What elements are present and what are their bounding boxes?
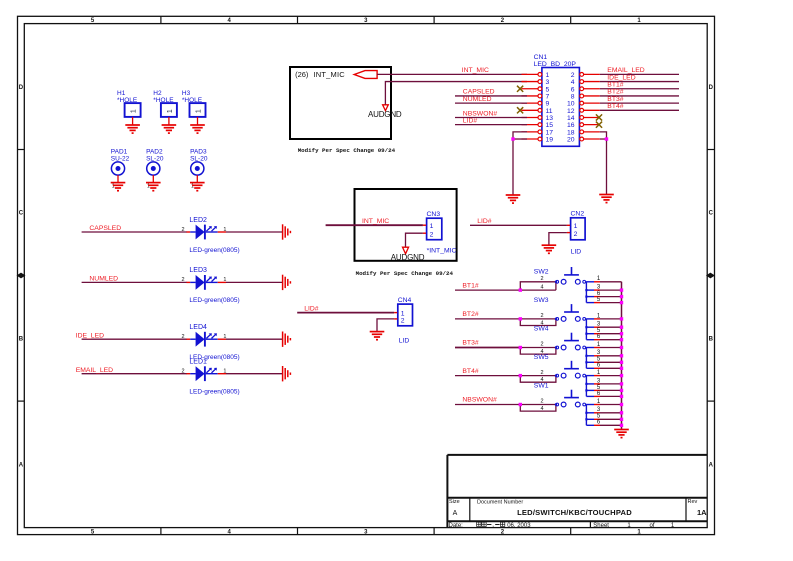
svg-text:C: C (709, 211, 714, 217)
svg-text:1: 1 (147, 184, 150, 190)
svg-text:1: 1 (574, 223, 578, 230)
svg-text:*HOLE: *HOLE (182, 97, 203, 104)
svg-text:BT1#: BT1# (462, 282, 478, 289)
svg-text:IDE_LED: IDE_LED (607, 74, 635, 81)
label LED-green(0805) (LED3) (189, 297, 239, 304)
label SW4 (534, 326, 549, 333)
label BT3# (CN1) (607, 96, 623, 103)
wires SW2 to ground bus (600, 282, 622, 303)
svg-text:INT_MIC: INT_MIC (462, 67, 489, 74)
CN1 right pins 2-20 (stubs+circles) (580, 73, 600, 141)
wire IDE_LED from CN1 pin 4 (600, 81, 679, 83)
svg-text:NUMLED: NUMLED (463, 96, 492, 103)
label LED3 (189, 267, 207, 274)
label BT4# (CN1) (607, 103, 623, 110)
svg-text:2: 2 (181, 277, 184, 283)
label NUMLED (CN1) (463, 96, 492, 103)
svg-text:AUDGND: AUDGND (368, 110, 402, 119)
label AUDGND (CN3) (391, 253, 425, 262)
note box CN3 (355, 189, 457, 261)
connector CN1 LED_BD_20P (534, 54, 580, 146)
svg-text:1: 1 (112, 184, 115, 190)
pad PAD3 (190, 148, 208, 175)
svg-text:Modify Per Spec Change 09/24: Modify Per Spec Change 09/24 (356, 270, 454, 277)
CN1 pin numbers (546, 72, 575, 144)
svg-text:NBSWON#: NBSWON# (462, 397, 497, 404)
svg-text:EMAIL_LED: EMAIL_LED (607, 67, 644, 74)
svg-text:NBSWON#: NBSWON# (463, 110, 498, 117)
label *INT_MIC (427, 248, 457, 255)
label SW2 (534, 268, 549, 275)
SW1 pin numbers 2/4 (540, 399, 543, 412)
label AUDGND (top) (368, 110, 402, 119)
wire LED3 to termination (226, 281, 283, 283)
ground PAD3 (190, 183, 205, 191)
termination (rotated ground) NUMLED (283, 275, 291, 290)
LED1 pin numbers (181, 369, 226, 375)
label SW3 (534, 297, 549, 304)
SW5 right pin numbers (597, 370, 601, 397)
note Modify Per Spec Change 09/24 (top) (298, 147, 396, 154)
svg-text:SW1: SW1 (534, 383, 549, 390)
label LED-green(0805) (LED2) (189, 247, 239, 254)
switch SW2 right pins (585, 282, 600, 303)
wire CAPSLED to CN1 pin 7 (455, 95, 527, 97)
svg-text:A: A (709, 462, 714, 468)
svg-text:2: 2 (540, 313, 543, 319)
wires SW1 to ground bus (600, 405, 622, 426)
svg-text:C: C (19, 211, 24, 217)
svg-text:9: 9 (546, 101, 550, 108)
switch SW5 actuator (564, 361, 579, 369)
switch SW5 right pins (585, 376, 600, 397)
ground CN2 (542, 245, 557, 253)
wire BT3# from CN1 pin 10 (600, 102, 679, 104)
label INT_MIC (CN3) (362, 218, 389, 225)
svg-text:D: D (19, 85, 24, 91)
label CN2 (571, 210, 585, 217)
label NUMLED (89, 276, 118, 283)
ground (bus) (614, 430, 629, 438)
junction CN1-left gnd (511, 137, 514, 140)
ground H2 (162, 125, 177, 133)
svg-text:2: 2 (430, 231, 434, 238)
svg-text:A: A (453, 510, 458, 517)
wire LED1 to termination (226, 373, 283, 375)
note Modify Per Spec Change 09/24 (CN3) (356, 270, 454, 277)
termination (rotated ground) EMAIL_LED (283, 366, 291, 381)
wire INT_MIC to CN1 pin 1 (377, 73, 527, 75)
svg-text:D: D (709, 85, 714, 91)
wire INT_MIC to CN3 pin 1 (326, 224, 423, 226)
wire EMAIL_LED to LED1 (82, 373, 187, 375)
svg-text:16: 16 (567, 122, 575, 129)
SW4 right pin numbers (597, 342, 601, 369)
svg-text:12: 12 (567, 108, 575, 115)
label LID# (CN4) (304, 305, 319, 312)
svg-text:2: 2 (401, 318, 405, 325)
wire ground bus (621, 282, 623, 430)
svg-text:1: 1 (131, 109, 138, 113)
svg-text:2: 2 (571, 72, 575, 79)
svg-text:LID: LID (571, 249, 582, 256)
no-connect X CN1 pin 11 (517, 107, 523, 113)
label BT3# (SW4) (462, 340, 478, 347)
wire CN1 pins 17/19 to ground (513, 132, 527, 195)
label LID (CN2) (571, 249, 582, 256)
label NBSWON# (CN1) (463, 110, 498, 117)
svg-text:13: 13 (546, 115, 554, 122)
SW3 right pin numbers (597, 313, 601, 340)
svg-text:Date:: Date: (449, 523, 464, 529)
svg-text:*HOLE: *HOLE (117, 97, 138, 104)
wire SW4 pins 2/4 link (520, 348, 556, 355)
wire CN4 pin 2 to ground (377, 319, 394, 332)
wire SW3 pins 2/4 link (520, 319, 556, 326)
junction CN1-right gnd (605, 137, 608, 140)
svg-text:2: 2 (574, 231, 578, 238)
label LED-green(0805) (LED4) (189, 354, 239, 361)
LED LED4 (187, 332, 227, 347)
svg-text:14: 14 (567, 115, 575, 122)
wire BT3# to SW4 (455, 347, 520, 349)
svg-text:SL-20: SL-20 (190, 155, 208, 162)
label CN4 (398, 297, 412, 304)
svg-text:BT2#: BT2# (607, 89, 623, 96)
svg-text:2: 2 (181, 334, 184, 340)
svg-text:*HOLE: *HOLE (153, 97, 174, 104)
wire SW2 pins 2/4 link (520, 282, 556, 290)
svg-text:LED_BD_20P: LED_BD_20P (534, 61, 577, 68)
ground CN1 right (599, 195, 614, 203)
label INT_MIC (net) (462, 67, 489, 74)
label LID (CN4) (399, 338, 410, 345)
switch SW1 contacts (555, 402, 586, 407)
SW2 right pin numbers (597, 276, 601, 303)
junction BT4#/SW5 (519, 374, 522, 377)
svg-text:CN4: CN4 (398, 297, 412, 304)
hole H2 (153, 90, 177, 117)
svg-text:19: 19 (546, 137, 554, 144)
junction NBSWON#/SW1 (519, 403, 522, 406)
svg-text:4: 4 (540, 406, 543, 412)
ground H3 (190, 125, 205, 133)
svg-text:LED-green(0805): LED-green(0805) (189, 389, 239, 396)
LED LED1 (187, 366, 227, 381)
svg-text:1: 1 (546, 72, 550, 79)
svg-text:SW5: SW5 (534, 354, 549, 361)
wire PAD1 to ground (117, 175, 119, 183)
port arrow AUDGND (CN3) (403, 247, 409, 254)
svg-text:(26): (26) (295, 70, 309, 79)
wire PAD2 to ground (152, 175, 154, 183)
svg-text:EMAIL_LED: EMAIL_LED (76, 367, 113, 374)
svg-text:1: 1 (167, 109, 174, 113)
PAD2 pin number 1 (147, 184, 150, 190)
svg-text:CN2: CN2 (571, 210, 585, 217)
svg-text:LID: LID (399, 338, 410, 345)
svg-text:2: 2 (181, 227, 184, 233)
pad PAD2 (146, 148, 164, 175)
junction BT2#/SW3 (519, 317, 522, 320)
switch SW3 contacts (555, 317, 586, 322)
label CAPSLED (89, 225, 121, 232)
label LED1 (189, 359, 207, 366)
LED LED3 (187, 275, 227, 290)
wire SW1 pins 2/4 link (520, 405, 556, 412)
wires SW5 to ground bus (600, 376, 622, 397)
svg-text:of: of (649, 523, 654, 529)
wire BT1# to SW2 (455, 289, 520, 291)
wire EMAIL_LED from CN1 pin 2 (600, 73, 679, 75)
label LID# (CN1) (463, 117, 478, 124)
termination (rotated ground) CAPSLED (283, 224, 291, 239)
svg-text:B: B (709, 337, 714, 343)
hole H1 (117, 90, 141, 117)
label SW5 (534, 354, 549, 361)
svg-text:8: 8 (571, 93, 575, 100)
svg-text:LID#: LID# (477, 218, 492, 225)
ground H1 (125, 125, 140, 133)
label BT4# (SW5) (462, 368, 478, 375)
wire LID# to CN1 pin 15 (455, 124, 527, 126)
svg-text:3: 3 (546, 79, 550, 86)
svg-text:SW3: SW3 (534, 297, 549, 304)
svg-text:06, 2003: 06, 2003 (507, 523, 531, 529)
label EMAIL_LED (76, 367, 113, 374)
port arrow AUDGND (top) (383, 105, 389, 111)
svg-text:Size: Size (449, 499, 460, 505)
switch SW3 right pins (585, 319, 600, 340)
svg-text:CN3: CN3 (427, 211, 441, 218)
switch SW2 actuator (564, 267, 579, 275)
wire CN2 pin 2 to ground (549, 233, 567, 246)
wire BT1# from CN1 pin 6 (600, 88, 679, 90)
switch SW4 right pins (585, 348, 600, 369)
svg-text:11: 11 (546, 108, 553, 115)
svg-text:SW4: SW4 (534, 326, 549, 333)
wire LED2 to termination (226, 231, 283, 233)
label CN3 (427, 211, 441, 218)
connector CN2 (567, 218, 585, 240)
wire BT2# to SW3 (455, 318, 520, 320)
label BT1# (SW2) (462, 282, 478, 289)
switch SW2 contacts (555, 279, 586, 284)
svg-text:1: 1 (191, 184, 194, 190)
svg-text:Document Number: Document Number (477, 500, 523, 506)
off-page port INT_MIC (354, 71, 377, 79)
switch SW1 right pins (585, 405, 600, 426)
label LED4 (189, 324, 207, 331)
wire BT4# from CN1 pin 12 (600, 109, 679, 111)
svg-text:A: A (19, 462, 24, 468)
svg-text:LID#: LID# (463, 117, 478, 124)
svg-text:PAD1: PAD1 (111, 148, 128, 155)
svg-text:LED/SWITCH/KBC/TOUCHPAD: LED/SWITCH/KBC/TOUCHPAD (517, 508, 632, 517)
label LED2 (189, 217, 207, 224)
no-connect X CN1 pin 14 (596, 114, 602, 120)
svg-text:BT2#: BT2# (462, 311, 478, 318)
SW4 pin numbers 2/4 (540, 342, 543, 355)
svg-text:1: 1 (430, 223, 434, 230)
wire BT4# to SW5 (455, 375, 520, 377)
no-connect X CN1 pin 16 (596, 122, 602, 128)
LED4 pin numbers (181, 334, 226, 340)
svg-text:2: 2 (540, 399, 543, 405)
svg-text:6: 6 (571, 86, 575, 93)
svg-text:INT_MIC: INT_MIC (362, 218, 389, 225)
PAD1 pin number 1 (112, 184, 115, 190)
wire CN1 pins 18/20 to ground (600, 132, 607, 195)
wire NUMLED to LED3 (82, 281, 187, 283)
wire LED4 to termination (226, 338, 283, 340)
svg-text:17: 17 (546, 129, 554, 136)
junction BT3#/SW4 (519, 346, 522, 349)
label SW1 (534, 383, 549, 390)
label CAPSLED (CN1) (463, 89, 495, 96)
connector CN4 (394, 304, 412, 326)
label BT2# (SW3) (462, 311, 478, 318)
svg-text:LED3: LED3 (189, 267, 207, 274)
label EMAIL_LED (CN1) (607, 67, 644, 74)
svg-text:IDE_LED: IDE_LED (76, 332, 104, 339)
svg-text:PAD2: PAD2 (146, 148, 163, 155)
SW1 right pin numbers (597, 399, 601, 426)
svg-text:1: 1 (401, 311, 405, 318)
svg-text:1: 1 (195, 109, 202, 113)
svg-text:18: 18 (567, 129, 575, 136)
svg-text:Sheet: Sheet (593, 523, 609, 529)
switch SW5 contacts (555, 373, 586, 378)
svg-text:LID#: LID# (304, 305, 319, 312)
svg-text:CN1: CN1 (534, 54, 548, 61)
LED LED2 (187, 225, 227, 240)
junction BT1#/SW2 (519, 288, 522, 291)
svg-text:10: 10 (567, 101, 575, 108)
svg-text:2: 2 (540, 342, 543, 348)
svg-text:*INT_MIC: *INT_MIC (427, 248, 457, 255)
termination (rotated ground) IDE_LED (283, 332, 291, 347)
wire CAPSLED to LED2 (82, 231, 187, 233)
SW5 pin numbers 2/4 (540, 370, 543, 383)
svg-text:7: 7 (546, 93, 550, 100)
svg-text:B: B (19, 337, 24, 343)
switch SW4 actuator (564, 333, 579, 341)
wire CN3 pin 2 to AUDGND port (406, 233, 423, 247)
LED2 pin numbers (181, 227, 226, 233)
hole H3 (182, 90, 206, 117)
svg-text:4: 4 (571, 79, 575, 86)
label BT2# (CN1) (607, 89, 623, 96)
CN1 left pins 1-19 (stubs+circles) (522, 73, 542, 141)
wire CN1 pin 3 to AUDGND port (385, 82, 527, 105)
svg-text:PAD3: PAD3 (190, 148, 207, 155)
svg-text:INT_MIC: INT_MIC (314, 70, 346, 79)
wire H2 to ground (168, 117, 170, 125)
wire SW5 pins 2/4 link (520, 376, 556, 383)
svg-text:2: 2 (181, 369, 184, 375)
label IDE_LED (CN1) (607, 74, 635, 81)
label LED-green(0805) (LED1) (189, 389, 239, 396)
PAD3 pin number 1 (191, 184, 194, 190)
svg-text:BT1#: BT1# (607, 82, 623, 89)
wire IDE_LED to LED4 (82, 338, 187, 340)
label IDE_LED (76, 332, 104, 339)
note box (26) INT_MIC (290, 67, 391, 139)
svg-text:SU-22: SU-22 (111, 155, 130, 162)
SW2 pin numbers 2/4 (540, 276, 543, 290)
svg-text:LED2: LED2 (189, 217, 207, 224)
svg-text:1A: 1A (697, 508, 707, 517)
svg-text:2: 2 (540, 276, 543, 282)
svg-text:5: 5 (546, 86, 550, 93)
svg-text:SL-20: SL-20 (146, 155, 164, 162)
wire BT2# from CN1 pin 8 (600, 95, 679, 97)
wires SW4 to ground bus (600, 348, 622, 369)
svg-text:BT3#: BT3# (462, 340, 478, 347)
svg-text:BT3#: BT3# (607, 96, 623, 103)
svg-text:CAPSLED: CAPSLED (89, 225, 121, 232)
SW3 pin numbers 2/4 (540, 313, 543, 326)
svg-text:LED4: LED4 (189, 324, 207, 331)
svg-text:15: 15 (546, 122, 554, 129)
switch SW3 actuator (564, 304, 579, 312)
svg-text:Modify Per Spec Change 09/24: Modify Per Spec Change 09/24 (298, 147, 396, 154)
wire H3 to ground (197, 117, 199, 125)
svg-text:NUMLED: NUMLED (89, 276, 118, 283)
switch SW1 actuator (564, 390, 579, 398)
label LID# (CN2) (477, 218, 492, 225)
ground CN4 (370, 332, 385, 340)
svg-text:AUDGND: AUDGND (391, 253, 425, 262)
svg-text:20: 20 (567, 137, 575, 144)
no-connect X CN1 pin 5 (517, 86, 523, 92)
wire LID# to CN2 pin 1 (470, 224, 567, 226)
svg-text:2: 2 (540, 370, 543, 376)
svg-text:LED-green(0805): LED-green(0805) (189, 247, 239, 254)
ground CN1 left (506, 195, 521, 203)
wire LID# to CN4 pin 1 (297, 312, 394, 314)
svg-text:Rev: Rev (688, 499, 698, 505)
label BT1# (CN1) (607, 82, 623, 89)
svg-text:LED1: LED1 (189, 359, 207, 366)
pad PAD1 (111, 148, 130, 175)
wire NUMLED to CN1 pin 9 (455, 102, 527, 104)
svg-text:BT4#: BT4# (462, 368, 478, 375)
svg-text:CAPSLED: CAPSLED (463, 89, 495, 96)
label NBSWON# (SW1) (462, 397, 497, 404)
wire PAD3 to ground (196, 175, 198, 183)
wires SW3 to ground bus (600, 319, 622, 340)
wire NBSWON# to CN1 pin 13 (455, 116, 527, 118)
junctions on ground bus (620, 288, 623, 427)
wire NBSWON# to SW1 (455, 404, 520, 406)
svg-text:SW2: SW2 (534, 268, 549, 275)
svg-text:BT4#: BT4# (607, 103, 623, 110)
svg-text:4: 4 (540, 284, 543, 290)
ground PAD1 (111, 183, 126, 191)
LED3 pin numbers (181, 277, 226, 283)
svg-text:LED-green(0805): LED-green(0805) (189, 297, 239, 304)
switch SW4 contacts (555, 345, 586, 350)
wire H1 to ground (132, 117, 134, 125)
ground PAD2 (146, 183, 161, 191)
connector CN3 (423, 218, 442, 240)
